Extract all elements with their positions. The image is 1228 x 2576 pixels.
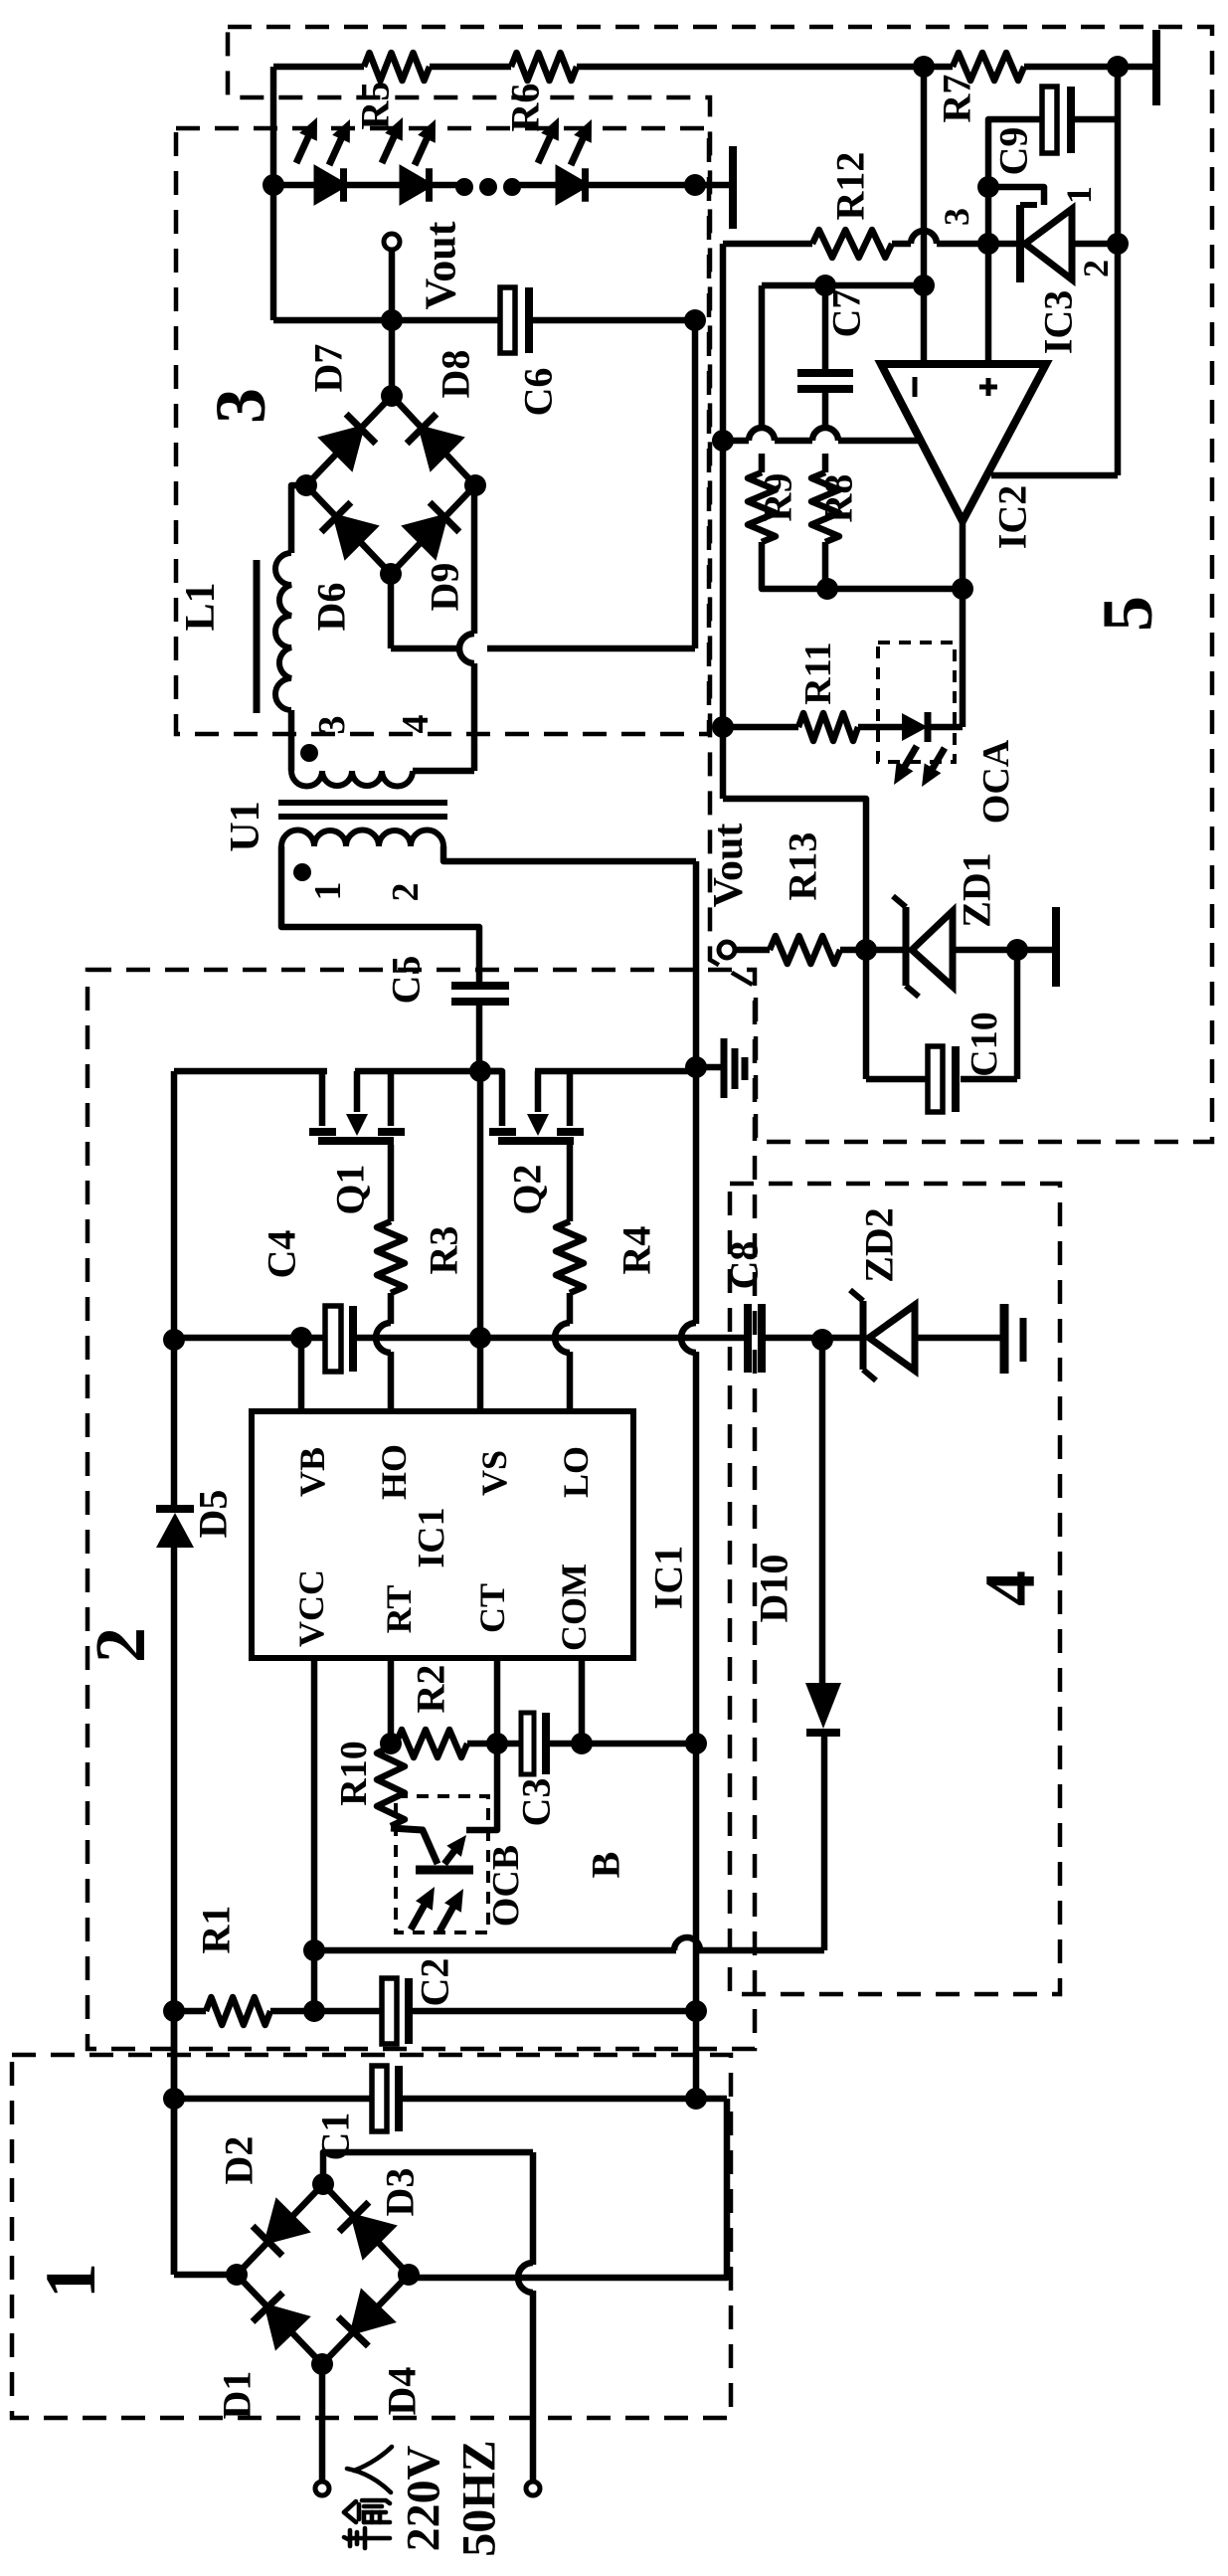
- wire R8 bottom: [822, 542, 829, 589]
- node IC3 ref / +input: [977, 233, 999, 255]
- svg-text:C8: C8: [722, 1241, 767, 1290]
- resistor R11: [798, 713, 858, 741]
- resistor R4: [556, 1221, 584, 1293]
- svg-text:D2: D2: [217, 2136, 262, 2185]
- node bridge top (+): [381, 385, 403, 407]
- resistor R7: [953, 53, 1024, 81]
- wire LED row end: [587, 182, 733, 189]
- svg-text:R2: R2: [409, 1665, 453, 1714]
- wire LED row: [273, 182, 319, 189]
- minus sign: [913, 377, 918, 397]
- wire VCC rail to bridge: [171, 1548, 178, 2275]
- wire bridge bottom down: [388, 574, 395, 648]
- phasing dot primary: [293, 863, 311, 881]
- wire to IC3: [937, 241, 1020, 248]
- wire between R5 and R6: [430, 64, 511, 71]
- resistor R8: [811, 472, 839, 542]
- wire right bus R7/C9/IC3: [1115, 67, 1122, 475]
- wire Q1 body to midpoint: [355, 1068, 502, 1075]
- zener diode ZD1: [903, 907, 910, 986]
- wire bridge left to L1: [291, 485, 306, 553]
- wire DC- branch: [409, 2099, 727, 2278]
- svg-text:D4: D4: [380, 2367, 425, 2416]
- wire ZD1 to ground: [953, 947, 1052, 954]
- wire primary pin1 to C5: [281, 846, 479, 984]
- wire R11 to OCA: [858, 724, 902, 731]
- svg-text:D7: D7: [306, 344, 351, 393]
- diode D3: [354, 2217, 392, 2255]
- wire AC1: [319, 2364, 326, 2482]
- terminal Vout (output): [384, 234, 400, 250]
- svg-text:2: 2: [1076, 260, 1116, 277]
- resistor R10: [377, 1747, 405, 1826]
- node COM bus corner: [685, 1733, 707, 1754]
- node Vout: [381, 309, 403, 331]
- node R8/feedback: [816, 578, 838, 600]
- svg-text:R9: R9: [756, 473, 800, 522]
- wire riser with hop over return wire: [471, 663, 478, 771]
- wire bootstrap rail: [174, 1335, 325, 1342]
- capacitor C2: [382, 1978, 397, 2044]
- node VCC/bootstrap rail: [163, 1329, 185, 1351]
- svg-text:C7: C7: [824, 289, 869, 338]
- node C2/COM bus: [685, 2000, 707, 2022]
- node COM bus / C1: [685, 2088, 707, 2110]
- svg-text:R13: R13: [781, 832, 825, 901]
- wire Vout to rail: [389, 250, 396, 320]
- wire + input: [985, 187, 992, 364]
- block 1 dashed box (input rectifier): [12, 2055, 731, 2418]
- wire Q2 to R4: [567, 1145, 574, 1221]
- wire R11 row: [723, 724, 798, 731]
- ellipsis dots (more LEDs): [455, 178, 473, 196]
- wire Q2 to return: [535, 1068, 696, 1075]
- OCA light arrows: [904, 746, 917, 769]
- terminal Vout (sense): [719, 942, 735, 958]
- svg-text:1: 1: [31, 2263, 110, 2299]
- svg-text:2: 2: [81, 1627, 160, 1663]
- wire feedback row: [827, 586, 963, 593]
- zener diode ZD2: [860, 1301, 867, 1370]
- wire RT pin: [388, 1658, 395, 1744]
- terminal AC input 1: [315, 2482, 329, 2495]
- op-amp/driver IC1 box: [252, 1411, 633, 1658]
- node bridge bottom AC: [311, 2353, 333, 2375]
- svg-text:L1: L1: [178, 582, 224, 631]
- svg-text:C10: C10: [964, 1012, 1005, 1076]
- svg-text:D10: D10: [752, 1555, 796, 1623]
- node COM/C3: [571, 1733, 593, 1754]
- svg-text:C3: C3: [514, 1778, 559, 1827]
- wire ZD2 to ground: [915, 1335, 1000, 1342]
- label input chinese 输入 (vector strokes): [344, 2447, 392, 2548]
- svg-text:C4: C4: [260, 1230, 304, 1279]
- inductor L1 winding: [275, 553, 291, 710]
- wire R13 to ZD1: [840, 947, 906, 954]
- wire R3 to HO pin with hop over VB rail: [388, 1293, 395, 1324]
- svg-text:3: 3: [937, 208, 976, 226]
- wire - input bus: [921, 67, 928, 364]
- diode D8: [422, 429, 459, 466]
- capacitor C10: [928, 1046, 943, 1112]
- svg-text:R3: R3: [422, 1226, 466, 1275]
- svg-text:LO: LO: [556, 1446, 596, 1498]
- diode D2: [267, 2203, 305, 2241]
- node output/feedback: [952, 578, 973, 600]
- node top rail / IC2 inverting branch: [913, 56, 935, 78]
- transformer U1 secondary winding: [291, 771, 413, 787]
- node LED string end: [684, 174, 706, 196]
- wire secondary to riser: [413, 768, 474, 775]
- resistor R3: [377, 1221, 405, 1293]
- node primary return / ground: [685, 1056, 707, 1078]
- wire R6 to R7 node: [577, 64, 924, 71]
- transformer U1 primary winding: [281, 830, 443, 846]
- wire DC+ rail down: [171, 2011, 178, 2275]
- node C7 top: [814, 275, 836, 296]
- L1 core bar: [254, 560, 261, 713]
- svg-text:D6: D6: [309, 583, 354, 632]
- wire C9 left lead: [988, 119, 1042, 187]
- OCB light arrows: [411, 1904, 426, 1930]
- wire return bus vertical: [692, 320, 699, 648]
- svg-text:R8: R8: [816, 474, 861, 523]
- wire Vout to R13: [735, 947, 770, 954]
- node VB pin: [290, 1327, 312, 1349]
- wire C7 bottom lead: [822, 393, 829, 428]
- wire down to COM bus with hop over bootstrap rail: [693, 1067, 700, 1324]
- svg-text:50HZ: 50HZ: [453, 2440, 506, 2556]
- wire OCB rail: [314, 1947, 676, 1954]
- wire: [1024, 64, 1118, 71]
- svg-text:1: 1: [307, 882, 349, 901]
- svg-text:R12: R12: [828, 152, 873, 221]
- wire VCC pin down: [311, 1658, 318, 2011]
- svg-text:R7: R7: [935, 75, 979, 123]
- wire LED row: [345, 182, 405, 189]
- svg-text:IC1: IC1: [646, 1546, 691, 1609]
- diode D5 (bootstrap): [156, 1505, 194, 1513]
- wire return to bus: [391, 645, 459, 652]
- wire C6 to return bus: [533, 317, 695, 324]
- node C1 left: [163, 2088, 185, 2110]
- svg-text:Vout: Vout: [417, 221, 465, 309]
- wire C3 to COM bus: [550, 1741, 696, 1748]
- resistor R5: [364, 53, 430, 81]
- svg-text:IC3: IC3: [1036, 290, 1081, 354]
- wire OCA to output: [928, 724, 963, 731]
- block 4 dashed box: [730, 1184, 1060, 1994]
- capacitor C3: [521, 1713, 534, 1774]
- wire IC2 output: [960, 521, 966, 727]
- resistor R12: [812, 230, 892, 258]
- svg-text:C2: C2: [413, 1958, 457, 2007]
- capacitor C7: [797, 369, 853, 377]
- node bridge left (AC): [295, 474, 317, 496]
- input bridge D1-D4: [237, 2184, 323, 2275]
- svg-text:CT: CT: [472, 1583, 512, 1633]
- block 5 dashed box (feedback): [228, 27, 1212, 1142]
- capacitor C4: [325, 1306, 341, 1372]
- svg-text:VS: VS: [474, 1450, 514, 1496]
- node RT/R2/R10: [380, 1733, 402, 1754]
- wire LED branch left vertical: [270, 67, 277, 320]
- svg-text:4: 4: [395, 715, 437, 734]
- wire C10 branch left: [863, 950, 870, 1079]
- wire COM bus vertical: [693, 1744, 700, 2099]
- wire AC2 lower: [530, 2291, 537, 2482]
- wire L1 to secondary winding: [288, 710, 295, 771]
- diode D7: [323, 429, 361, 466]
- wire LED row: [517, 182, 561, 189]
- svg-text:R5: R5: [353, 82, 398, 130]
- node R1 left: [163, 2000, 185, 2022]
- svg-text:VB: VB: [292, 1447, 332, 1497]
- diode D9: [407, 517, 444, 555]
- terminal bar top right: [1152, 30, 1160, 105]
- wire C10 left lead: [866, 1076, 928, 1083]
- node VCC/OCB rail: [303, 1939, 325, 1961]
- LED diode 1: [317, 169, 344, 200]
- svg-text:Q2: Q2: [505, 1164, 550, 1214]
- wire return to bus right part: [487, 645, 695, 652]
- svg-text:HO: HO: [374, 1444, 414, 1500]
- svg-text:D1: D1: [215, 2371, 260, 2420]
- svg-text:Vout: Vout: [706, 824, 752, 908]
- svg-text:B: B: [584, 1852, 628, 1879]
- wire C1 to right branch: [403, 2096, 727, 2103]
- diode D1: [267, 2307, 305, 2345]
- wire HO drive to Q1 gate: [174, 1068, 327, 1075]
- wire bridge top to Vout rail: [389, 320, 396, 396]
- wire C1 rail: [174, 2096, 375, 2103]
- optocoupler OCB phototransistor: [391, 1828, 438, 1864]
- resistor R2: [396, 1730, 467, 1757]
- diode D10: [806, 1729, 840, 1737]
- wire LED row: [431, 182, 459, 189]
- svg-text:R1: R1: [194, 1906, 239, 1954]
- wire Q1 to R3: [388, 1145, 395, 1221]
- node bridge left DC+: [226, 2264, 248, 2286]
- wire to terminal bar: [1118, 64, 1153, 71]
- rectifier bridge D6-D9: [306, 396, 392, 485]
- wire bus to R13 node: [723, 799, 866, 950]
- LED emission arrows: [296, 134, 309, 163]
- LED emission arrows: [382, 134, 395, 163]
- node -input/C7: [913, 275, 935, 296]
- svg-text:IC2: IC2: [990, 485, 1035, 549]
- capacitor C9: [1042, 87, 1057, 153]
- wire IC3 to right bus: [1072, 241, 1118, 248]
- resistor R13: [770, 936, 840, 964]
- wire Vout rail: [273, 317, 503, 324]
- svg-text:R4: R4: [614, 1226, 659, 1275]
- node bridge right (AC): [464, 474, 486, 496]
- wire C10 right lead: [961, 1076, 1017, 1083]
- svg-text:4: 4: [970, 1570, 1050, 1606]
- U1 core line 2: [278, 814, 447, 820]
- node LED string start: [263, 174, 284, 196]
- wire ZD2 node to D10: [819, 1340, 826, 1683]
- plus sign: [979, 385, 997, 390]
- svg-text:ZD1: ZD1: [955, 852, 999, 928]
- wire C7 top lead: [822, 285, 829, 369]
- wire VCC rail left: [171, 1071, 178, 1505]
- OCB dashed box: [396, 1796, 488, 1932]
- svg-text:IC1: IC1: [411, 1507, 452, 1567]
- node CT/R2/C3: [486, 1733, 508, 1754]
- diode D4: [353, 2294, 391, 2331]
- wire C8 to ZD2: [766, 1335, 863, 1342]
- capacitor C5: [451, 982, 509, 990]
- U1 core line 1: [278, 800, 447, 806]
- svg-text:R11: R11: [797, 642, 839, 704]
- svg-text:COM: COM: [554, 1564, 594, 1651]
- wire AC2 upper: [323, 2152, 533, 2184]
- LED diode 2: [403, 169, 430, 200]
- wire to R1: [174, 2008, 206, 2015]
- block 2 dashed box (half-bridge driver): [88, 970, 755, 2049]
- node return bus / C6: [684, 309, 706, 331]
- OCA dashed box: [878, 643, 955, 762]
- node half-bridge midpoint: [469, 1060, 491, 1082]
- svg-text:VCC: VCC: [291, 1569, 331, 1647]
- terminal bar LED return: [729, 146, 737, 229]
- wire: [924, 64, 953, 71]
- diode D6: [336, 517, 374, 555]
- node bus/C7 rail: [712, 430, 734, 452]
- resistor R6: [511, 53, 577, 81]
- transistor Q2 (MOSFET): [480, 1071, 502, 1126]
- capacitor C1: [372, 2066, 387, 2131]
- wire rail to D10: [698, 1947, 824, 1954]
- capacitor C6: [500, 287, 515, 353]
- svg-text:R6: R6: [503, 84, 548, 132]
- wire R9 top: [759, 285, 766, 428]
- wire C7 rail: [762, 282, 924, 289]
- wire D10 down: [821, 1731, 828, 1950]
- svg-text:2: 2: [385, 883, 427, 902]
- terminal AC input 2: [526, 2482, 540, 2495]
- node C9/ref: [977, 176, 999, 198]
- wire primary pin2 to ground node: [443, 846, 696, 861]
- wire to ground symbol: [696, 1064, 722, 1071]
- svg-text:D5: D5: [191, 1490, 236, 1539]
- node bridge top AC: [312, 2173, 334, 2195]
- svg-text:5: 5: [1088, 596, 1167, 632]
- svg-text:ZD2: ZD2: [857, 1207, 902, 1283]
- node VS / midpoint: [469, 1327, 491, 1349]
- svg-text:R10: R10: [333, 1741, 375, 1805]
- ground symbol (primary return): [721, 1038, 728, 1098]
- wire C2 to COM bus: [413, 2008, 696, 2015]
- wire C10 branch right: [1014, 950, 1021, 1079]
- wire IC3 anode to IC2: [991, 472, 1118, 479]
- ground (block4): [1000, 1304, 1009, 1374]
- op-amp IC2: [881, 364, 1046, 521]
- wire R12 left: [723, 241, 812, 248]
- svg-text:C9: C9: [991, 127, 1036, 176]
- wire VB pin: [298, 1338, 305, 1410]
- svg-text:D9: D9: [423, 563, 467, 612]
- wire C9 right lead: [1075, 116, 1118, 123]
- wire feedback bus vertical: [720, 244, 727, 799]
- svg-text:C6: C6: [516, 368, 561, 417]
- node ZD2/D10: [811, 1329, 833, 1351]
- svg-text:C5: C5: [384, 956, 429, 1005]
- svg-text:U1: U1: [223, 801, 268, 851]
- svg-text:3: 3: [311, 716, 353, 735]
- svg-text:Q1: Q1: [328, 1164, 373, 1214]
- node bus/R11 rail: [712, 716, 734, 738]
- wire compensation row: [723, 438, 749, 445]
- svg-text:D3: D3: [378, 2168, 423, 2217]
- wire CT pin: [494, 1658, 501, 1744]
- resistor R9: [748, 472, 776, 542]
- resistor R1: [206, 1997, 270, 2025]
- ground bar ZD1: [1052, 907, 1060, 987]
- capacitor C8: [744, 1304, 752, 1373]
- node bridge right DC-: [398, 2264, 420, 2286]
- wire R1 to C2: [270, 2008, 385, 2015]
- wire rail to C8: [357, 1335, 744, 1342]
- wire COM pin: [579, 1658, 586, 1744]
- node VCC/R1: [303, 2000, 325, 2022]
- wire bridge left to rail: [174, 2272, 237, 2279]
- svg-text:OCA: OCA: [975, 739, 1017, 824]
- block 3 dashed box (output stage): [176, 128, 709, 734]
- svg-text:RT: RT: [379, 1585, 419, 1634]
- node R7 right: [1107, 56, 1129, 78]
- svg-text:220V: 220V: [398, 2445, 450, 2551]
- wire midpoint to VS pin: [477, 1071, 484, 1410]
- wire pin2 vertical: [693, 861, 700, 1067]
- wire R2 to C3: [467, 1741, 524, 1748]
- wire R12 right: [892, 241, 911, 248]
- svg-text:D8: D8: [434, 350, 478, 399]
- LED emission arrows: [538, 134, 551, 163]
- svg-text:3: 3: [201, 388, 280, 424]
- wire R9 bottom: [762, 542, 827, 589]
- wire top rail left: [273, 64, 364, 71]
- wire R4 to LO pin with hop over rail: [567, 1293, 574, 1324]
- node IC3 pin2: [1107, 233, 1129, 255]
- wire C5 to midpoint: [476, 1006, 483, 1071]
- node R13/bus/C10: [855, 939, 877, 961]
- shunt regulator IC3 (TL431): [1016, 205, 1024, 282]
- transistor Q1 (MOSFET): [319, 1071, 326, 1126]
- svg-text:1: 1: [1059, 186, 1099, 204]
- optocoupler OCA LED: [902, 713, 928, 741]
- node bridge bottom (-): [380, 563, 402, 585]
- LED diode 3: [559, 169, 586, 200]
- phasing dot secondary: [300, 744, 318, 762]
- node ZD1/C10: [1006, 939, 1028, 961]
- svg-text:OCB: OCB: [485, 1845, 527, 1927]
